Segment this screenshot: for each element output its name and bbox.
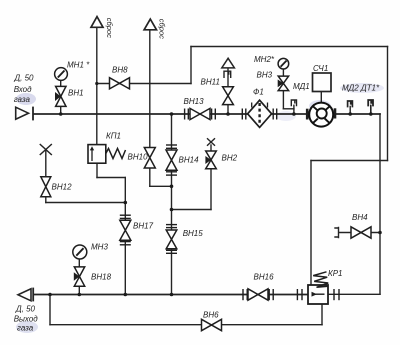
svg-text:МД1: МД1	[293, 82, 310, 91]
svg-text:ВН11: ВН11	[201, 78, 220, 87]
svg-text:Ф1: Ф1	[253, 88, 264, 97]
svg-text:Вход: Вход	[14, 85, 32, 94]
svg-text:ВН18: ВН18	[91, 273, 112, 282]
svg-text:ВН6: ВН6	[203, 311, 219, 320]
svg-text:ВН16: ВН16	[254, 273, 275, 282]
svg-text:Выход: Выход	[14, 315, 39, 324]
svg-text:СЧ1: СЧ1	[313, 64, 328, 73]
svg-text:МД2 ДТ1*: МД2 ДТ1*	[342, 84, 380, 93]
svg-text:МН3: МН3	[91, 242, 108, 251]
svg-text:сброс: сброс	[158, 19, 167, 39]
svg-text:ВН14: ВН14	[179, 156, 200, 165]
svg-text:газа: газа	[14, 95, 31, 104]
svg-text:ВН17: ВН17	[133, 222, 154, 231]
svg-text:ВН3: ВН3	[257, 71, 273, 80]
svg-text:ВН13: ВН13	[184, 97, 205, 106]
svg-text:Д, 50: Д, 50	[15, 305, 36, 314]
svg-text:газа: газа	[17, 324, 34, 333]
svg-text:МН2*: МН2*	[254, 55, 275, 64]
svg-text:ВН1: ВН1	[68, 89, 84, 98]
svg-text:ВН2: ВН2	[222, 154, 238, 163]
svg-text:КП1: КП1	[106, 132, 121, 141]
svg-text:ВН15: ВН15	[183, 229, 204, 238]
svg-text:сброс: сброс	[105, 18, 114, 38]
svg-text:МН1 *: МН1 *	[67, 61, 90, 70]
svg-text:ВН8: ВН8	[112, 66, 128, 75]
svg-text:ВН12: ВН12	[52, 183, 73, 192]
svg-text:ВН10: ВН10	[128, 153, 149, 162]
svg-text:КР1: КР1	[328, 269, 343, 278]
svg-text:Д, 50: Д, 50	[14, 74, 35, 83]
svg-text:ВН4: ВН4	[352, 213, 368, 222]
